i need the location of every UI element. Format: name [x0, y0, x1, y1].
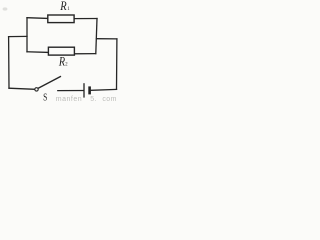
svg-text:R: R — [58, 54, 65, 69]
wire bottom left (to switch) — [9, 88, 35, 89]
resistor R2 — [48, 47, 74, 55]
svg-text:manfen: manfen — [56, 96, 82, 103]
wire left feed — [9, 35, 27, 37]
scan smudge — [3, 7, 8, 10]
svg-text:R: R — [59, 0, 66, 13]
svg-text:S: S — [43, 93, 47, 104]
wire switch to battery — [58, 90, 83, 92]
battery cell — [84, 83, 90, 97]
wire left parallel bus — [26, 18, 28, 52]
svg-text:5.: 5. — [90, 96, 97, 103]
wire right feed — [97, 38, 117, 40]
wire right outer vertical — [116, 39, 118, 90]
wire top branch right (R1 to corner) — [74, 18, 98, 20]
switch S — [35, 76, 61, 91]
wire bottom branch right (R2 to bus) — [74, 53, 96, 55]
resistor R1 — [48, 15, 74, 23]
wire left outer vertical — [8, 37, 10, 89]
wire battery to right corner — [91, 88, 116, 91]
svg-text:com: com — [102, 96, 116, 103]
wire top branch left (node to R1) — [27, 17, 48, 20]
wire bottom branch left (node to R2) — [27, 51, 49, 54]
wire right parallel bus — [96, 19, 97, 54]
